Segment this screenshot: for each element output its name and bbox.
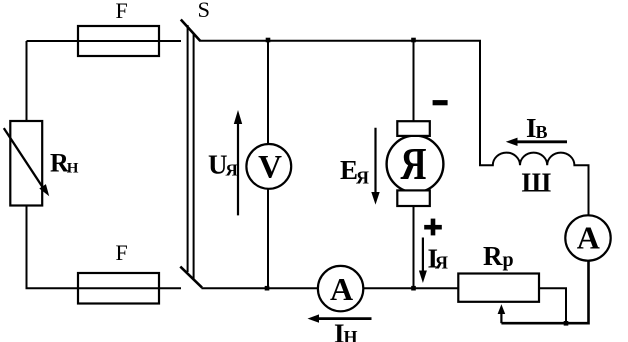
svg-text:F: F [116,0,128,23]
svg-text:A: A [577,220,600,256]
svg-text:Ш: Ш [522,168,552,198]
svg-text:IВ: IВ [526,113,548,143]
svg-text:IЯ: IЯ [428,244,449,274]
svg-text:EЯ: EЯ [340,155,369,188]
svg-text:Я: Я [401,139,427,189]
svg-text:RН: RН [50,149,79,178]
svg-text:Rр: Rр [483,241,514,271]
svg-text:IН: IН [334,318,358,342]
svg-text:A: A [330,271,353,307]
svg-text:S: S [198,0,211,22]
svg-text:UЯ: UЯ [208,150,238,180]
svg-text:F: F [116,240,128,265]
svg-text:V: V [258,149,282,185]
